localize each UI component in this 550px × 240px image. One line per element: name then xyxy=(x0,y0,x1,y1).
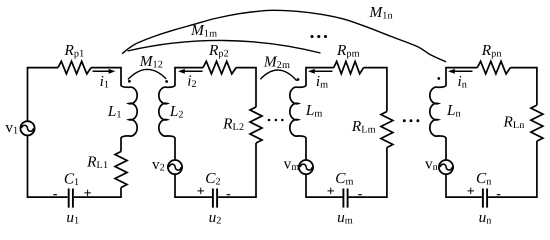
resistor R_Ln xyxy=(531,105,543,141)
inductor L1 xyxy=(121,85,137,152)
current arrow i1 xyxy=(93,70,110,72)
wire: stage2 top-left segment and inductor L2 xyxy=(159,68,203,160)
wire: stage2 right vertical lower and bottom corner xyxy=(218,143,256,197)
wire: stage-m top-right corner and right vertical upper xyxy=(364,68,387,112)
wire: stage1 left vertical and top-left segment xyxy=(28,68,59,122)
svg-text:+: + xyxy=(467,184,475,199)
resistor R_p1 xyxy=(58,61,91,74)
current arrow im xyxy=(314,70,332,72)
ellipsis top xyxy=(310,35,313,38)
svg-text:-: - xyxy=(226,187,231,202)
wire: stage-m top-left segment and inductor Lm xyxy=(290,68,334,160)
capacitor C2 xyxy=(213,189,217,208)
wire: stage1 bottom-left corner xyxy=(28,135,68,197)
wire: stage2 below source to capacitor xyxy=(175,174,212,197)
wire: stage1 top-right segment into corner xyxy=(91,68,121,85)
source vm xyxy=(299,160,313,174)
resistor R_L2 xyxy=(250,107,262,143)
mutual arc M2m xyxy=(260,70,297,81)
wire: stage-n top-right corner and right vertical upper xyxy=(510,68,537,106)
wire: stage-n top-left segment and inductor Ln xyxy=(430,68,477,160)
wire: stage-m right vertical lower and bottom corner xyxy=(349,148,387,198)
ellipsis between stage2 and stage m xyxy=(268,119,271,122)
wire: stage2 top-right corner and right vertical upper xyxy=(236,68,256,107)
wire: stage1 right-bottom corner xyxy=(74,188,121,198)
phase dot L2 xyxy=(165,80,168,83)
resistor R_p2 xyxy=(203,61,236,74)
wire: stage-n below source to capacitor xyxy=(446,174,482,197)
ellipsis between stage m and stage n xyxy=(403,119,406,122)
mutual arc M1m xyxy=(128,40,321,53)
svg-text:-: - xyxy=(496,187,501,202)
source v1 xyxy=(20,121,34,135)
source vn xyxy=(439,160,453,174)
resistor R_L1 xyxy=(115,152,127,188)
mutual arc M12 xyxy=(128,69,166,79)
capacitor C1 xyxy=(69,189,73,208)
wire: stage-n right vertical lower and bottom corner xyxy=(488,141,537,197)
phase dot Ln xyxy=(437,77,440,80)
current arrow in xyxy=(454,70,472,72)
phase dot Lm xyxy=(297,78,300,81)
resistor R_Lm xyxy=(381,112,393,148)
current arrow i2 xyxy=(184,70,202,72)
svg-text:-: - xyxy=(358,187,363,202)
svg-text:+: + xyxy=(327,184,335,199)
svg-text:-: - xyxy=(53,187,58,202)
capacitor Cm xyxy=(343,189,347,208)
svg-text:+: + xyxy=(197,184,205,199)
phase dot L1 xyxy=(128,80,131,83)
svg-text:+: + xyxy=(84,186,92,201)
resistor R_pm xyxy=(334,61,364,73)
resistor R_pn xyxy=(477,61,510,74)
source v2 xyxy=(168,160,182,174)
capacitor Cn xyxy=(483,189,487,208)
wire: stage-m below source to capacitor xyxy=(306,174,342,197)
mutual arc M1n xyxy=(122,10,446,62)
